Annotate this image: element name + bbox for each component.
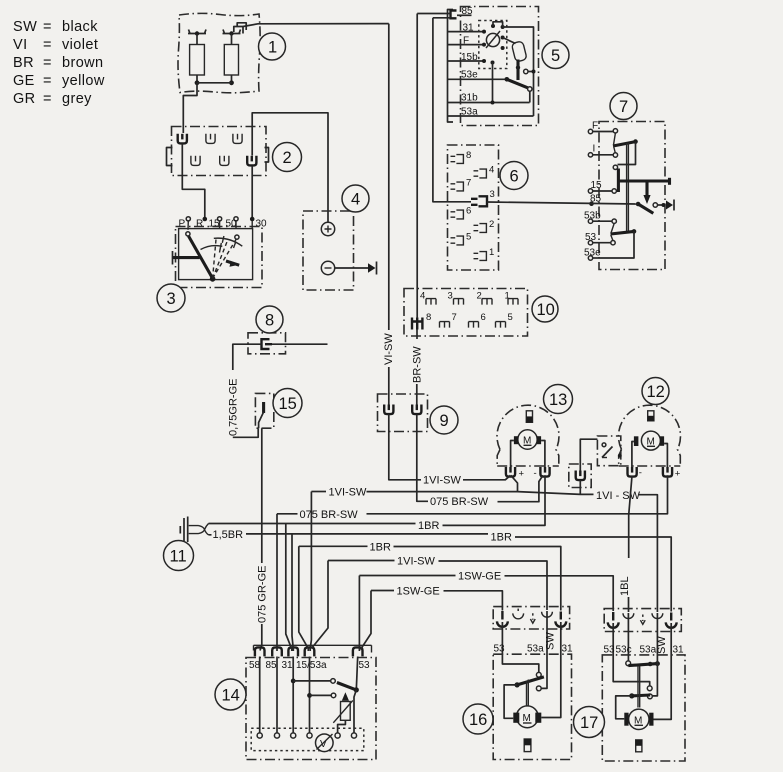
switch 3 inner frame	[179, 229, 253, 280]
svg-text:3: 3	[167, 290, 176, 308]
wire 1BR ground to pump13 minus	[209, 475, 546, 532]
connector 6 pin 6	[451, 206, 472, 219]
pump 13 motor leads	[511, 441, 545, 468]
relay 14 lead 58	[259, 657, 261, 734]
svg-text:=: =	[43, 73, 52, 89]
wire 1BR relay 53a to motor 16 strip	[299, 541, 561, 610]
wire drop 1SW-GE slant into relay 53	[361, 591, 372, 650]
circle 17	[574, 707, 605, 738]
circle 3	[157, 284, 185, 312]
relay 5 pin to 31b junction	[492, 63, 494, 103]
wire block2 to battery plus and terminal 30	[252, 113, 328, 223]
switch 3 steering-lock bar	[173, 256, 200, 259]
switch 7 top blade	[613, 133, 638, 170]
pump 12 minus connector	[628, 467, 642, 479]
motor 17 terminal labels	[604, 645, 685, 656]
wire 1BL pump12 minus to motor 17 strip	[619, 476, 632, 612]
svg-text:grey: grey	[62, 91, 92, 107]
motor 17 wire 53a through blade to contact	[648, 658, 658, 699]
svg-text:17: 17	[580, 714, 598, 732]
wiper switch 7 outline	[599, 122, 665, 270]
svg-text:8: 8	[265, 312, 274, 330]
svg-text:2: 2	[489, 219, 494, 230]
svg-text:1VI-SW: 1VI-SW	[423, 475, 462, 487]
terminal 30	[250, 217, 255, 222]
connector 6 pin 8	[451, 150, 472, 163]
relay 5 coil box	[479, 21, 507, 69]
connector 10 pin 4	[420, 291, 436, 305]
wire block2 to ignition R	[182, 144, 205, 220]
svg-text:31: 31	[673, 645, 685, 656]
svg-text:1VI-SW: 1VI-SW	[329, 486, 368, 498]
wire drop 1,5BR into relay 31	[292, 534, 293, 651]
svg-text:VI-SW: VI-SW	[383, 333, 395, 365]
motor 17 wire 53 to contact	[613, 658, 652, 691]
relay 14 terminal labels	[249, 660, 370, 671]
motor 16 terminal labels	[494, 644, 574, 655]
relay 14 lead 85	[276, 657, 278, 734]
svg-text:5: 5	[508, 312, 513, 323]
relay 5 contact to rail	[524, 69, 536, 73]
switch 3 housing	[176, 227, 263, 288]
wire 075BR-SW relay 85 to pump12 plus	[277, 475, 668, 521]
legend colour code	[13, 19, 105, 107]
svg-text:075 BR-SW: 075 BR-SW	[300, 509, 359, 521]
relay 14 blade	[337, 683, 359, 734]
svg-text:1: 1	[268, 39, 277, 57]
switch 7 slider rail	[627, 143, 629, 233]
wire 85 to BR-SW drop	[417, 13, 450, 15]
switch 7 terminal 85	[589, 194, 601, 207]
pump 13 brush icon	[526, 411, 532, 423]
svg-text:SW: SW	[13, 19, 37, 35]
connector 6 pin 3 bold	[471, 189, 495, 206]
ignition switch 3	[179, 217, 268, 230]
relay 5 switch blade	[505, 77, 533, 103]
connector 10 pin 6	[469, 312, 486, 328]
svg-text:53c: 53c	[616, 645, 632, 656]
svg-text:15/53a: 15/53a	[296, 660, 327, 671]
wire 1,5BR ground to motor 17 strip	[209, 529, 672, 612]
relay 5 terminal 53e	[448, 70, 507, 81]
svg-text:9: 9	[440, 412, 449, 430]
circle 5	[542, 42, 569, 69]
relay 14 resistor arrow	[342, 692, 349, 701]
block 2 right bracket	[265, 148, 269, 163]
motor 17 thermal icon	[636, 740, 642, 752]
junction pump13 plus to 1VI-SW run	[511, 475, 518, 491]
svg-text:1VI-SW: 1VI-SW	[397, 555, 436, 567]
intermittent relay 14 outline	[246, 658, 376, 760]
svg-text:I: I	[593, 144, 596, 155]
relay 14 contact 53a	[307, 693, 336, 698]
relay 5 terminal F	[448, 36, 484, 47]
connector block 2 outline	[172, 127, 267, 176]
connector 6 pin 4	[474, 165, 495, 178]
svg-text:8: 8	[466, 150, 471, 161]
wire 075GR-GE switch 15 to relay 58	[256, 428, 268, 650]
svg-text:2: 2	[477, 291, 482, 302]
switch 15 contact and blade	[259, 402, 264, 428]
svg-text:4: 4	[420, 291, 425, 302]
relay 5 top pin link	[493, 22, 503, 27]
svg-text:53: 53	[604, 645, 616, 656]
relay 14 resistor	[333, 701, 353, 734]
motor 16 wire 31	[541, 658, 561, 718]
svg-text:1,5BR: 1,5BR	[213, 529, 244, 541]
wire 075BR-SW connector9 to pump13 minus	[417, 415, 543, 509]
wire drop 1BR into relay 53a	[299, 546, 309, 651]
terminal 30 hook symbol	[234, 23, 246, 34]
svg-text:53: 53	[494, 644, 506, 655]
svg-text:-: -	[534, 468, 537, 479]
motor 16 plug strip	[493, 607, 569, 629]
wire 85 feed to pin 3	[433, 18, 471, 202]
switch 7 terminal F	[588, 121, 617, 134]
connector 8 outline	[248, 333, 286, 354]
svg-text:GR: GR	[13, 91, 36, 107]
motor 17 bottom blade	[616, 693, 651, 718]
block 2 left bracket	[167, 148, 173, 166]
svg-text:075 BR-SW: 075 BR-SW	[430, 496, 489, 508]
relay 5 terminal 15b	[448, 52, 484, 63]
svg-text:16: 16	[469, 711, 487, 729]
svg-text:15: 15	[279, 395, 297, 413]
motor 16 strip leads	[502, 611, 560, 658]
motor 17 actuator link	[638, 666, 640, 708]
circle 6	[500, 162, 528, 190]
relay 5 coil	[486, 31, 500, 48]
svg-text:3: 3	[490, 189, 495, 200]
wire 85 to pin3 drop	[433, 17, 451, 19]
svg-text:31: 31	[562, 644, 574, 655]
relay 5 left bracket	[448, 10, 454, 123]
pump 12 motor	[634, 431, 664, 450]
svg-text:10: 10	[537, 301, 555, 319]
svg-text:+: +	[675, 469, 681, 480]
circle 11	[164, 541, 194, 571]
svg-text:=: =	[43, 91, 52, 107]
connector 6 pin 5	[451, 232, 472, 245]
wiper motor 16 outline	[493, 654, 571, 759]
relay 14 contact 31	[291, 679, 336, 684]
svg-text:yellow: yellow	[62, 73, 105, 89]
svg-text:1BR: 1BR	[418, 520, 439, 532]
wire drop 1SW-GE into relay 53	[358, 576, 360, 652]
wire drop 1VI-SW slant into relay 53a	[312, 561, 328, 649]
wire 0,75GR-GE connector 8 to switch 15	[227, 344, 261, 437]
relay 14 wiper symbol	[316, 734, 334, 752]
wire fuse F1 to connector block 2	[183, 83, 197, 133]
switch 7 bottom blade	[599, 223, 637, 258]
svg-text:R: R	[196, 219, 203, 230]
wire connector 8 stub right	[272, 343, 328, 345]
svg-text:31: 31	[282, 660, 294, 671]
svg-text:8: 8	[426, 312, 431, 323]
svg-text:brown: brown	[62, 55, 104, 71]
circle 10	[532, 296, 558, 322]
svg-text:SW: SW	[545, 632, 557, 650]
svg-text:4: 4	[489, 165, 494, 176]
circle 8	[256, 306, 283, 333]
wire VI-SW vertical	[383, 24, 395, 405]
motor 17 top blade	[628, 661, 660, 666]
svg-text:15: 15	[209, 219, 221, 230]
motor 17 wire 53c to contact	[626, 658, 631, 666]
switch 7 terminal 53	[585, 232, 615, 245]
relay 5 terminal 31	[448, 23, 484, 34]
svg-text:-: -	[639, 468, 642, 479]
motor 17 wire 31	[654, 658, 672, 719]
motor 16 blade	[504, 677, 544, 718]
svg-text:7: 7	[452, 312, 457, 323]
svg-text:1VI - SW: 1VI - SW	[596, 490, 641, 502]
svg-text:1SW-GE: 1SW-GE	[458, 570, 501, 582]
svg-text:6: 6	[481, 312, 486, 323]
motor 17 plug strip	[604, 609, 681, 632]
circle 15	[273, 389, 302, 418]
svg-text:53a: 53a	[527, 644, 544, 655]
ground symbol at battery	[368, 262, 377, 275]
terminal P	[186, 217, 190, 221]
wiper relay 5 outline	[461, 7, 539, 126]
svg-text:85: 85	[266, 660, 278, 671]
svg-text:075 GR-GE: 075 GR-GE	[256, 566, 268, 623]
relay 5 connector at 85	[451, 11, 457, 19]
switch 7 terminal 53b	[584, 211, 616, 224]
relay 14 plug strip	[254, 645, 372, 656]
circle 4	[342, 185, 369, 212]
svg-text:53a: 53a	[640, 645, 657, 656]
switch 3 rotor	[186, 232, 243, 282]
svg-text:=: =	[43, 19, 52, 35]
pump 12 plus connector	[663, 467, 681, 480]
relay 5 armature	[503, 38, 528, 81]
svg-text:1BL: 1BL	[619, 576, 631, 596]
battery minus wire to ground	[335, 267, 368, 269]
switch 7 actuator arrow	[643, 181, 650, 204]
wire drop 1BR into relay 31	[286, 524, 292, 652]
relay 14 lead 53	[356, 657, 357, 690]
battery plus terminal	[321, 222, 334, 235]
relay 5 pins	[482, 30, 486, 34]
svg-text:P: P	[179, 219, 186, 230]
connector 10 pin 2	[477, 291, 493, 305]
svg-text:black: black	[62, 19, 98, 35]
circle 16	[463, 704, 493, 734]
connector 10 pin 5	[496, 312, 513, 328]
connector 10 pin 3	[448, 291, 464, 305]
connector 8 pin	[262, 339, 273, 349]
pump 12 motor leads	[632, 442, 668, 468]
motor 16 wire 53a to contact	[536, 658, 547, 691]
circle 9	[430, 406, 458, 434]
wire BR-SW vertical	[412, 14, 424, 405]
connector 9 outline	[378, 394, 428, 432]
relay 14 lead 53a	[309, 657, 311, 734]
pump 12 brush icon	[648, 411, 654, 421]
switch 7 wire 85 blade	[636, 202, 666, 214]
svg-text:BR-SW: BR-SW	[412, 346, 424, 383]
relay 14 lead 31	[292, 657, 294, 734]
circle 7	[610, 93, 637, 120]
wire drop 075BR-SW into relay 85	[276, 514, 278, 651]
wiper motor 17 outline	[602, 655, 685, 761]
connector 9 pin VI	[384, 405, 393, 415]
svg-text:+: +	[519, 469, 525, 480]
svg-text:58: 58	[249, 660, 261, 671]
relay 5 wire pin to right rail	[503, 27, 534, 116]
svg-text:13: 13	[549, 391, 567, 409]
washer pump 12 dome	[619, 405, 681, 466]
connector 10 outline	[404, 289, 528, 337]
svg-text:14: 14	[222, 687, 240, 705]
fuse F1	[188, 30, 206, 83]
washer pump 13 dome	[497, 405, 559, 466]
fuse box 1 outline	[178, 13, 260, 92]
circle 2	[273, 143, 302, 172]
motor 16 motor	[513, 706, 541, 728]
svg-text:BR: BR	[13, 55, 34, 71]
svg-text:1BR: 1BR	[370, 541, 391, 553]
fuse bottom bus wire	[195, 80, 234, 85]
svg-text:VI: VI	[13, 37, 28, 53]
wire 1SW-GE relay 53 to motor 17 strip	[359, 570, 613, 611]
fuse F2	[223, 30, 241, 83]
relay 14 socket pins	[257, 733, 357, 738]
svg-text:5: 5	[466, 232, 471, 243]
svg-text:violet: violet	[62, 37, 98, 53]
svg-text:GE: GE	[13, 73, 35, 89]
circle 14	[215, 679, 246, 710]
terminal R	[203, 217, 208, 222]
relay 5 terminal 85	[457, 6, 473, 17]
wire 1VI-SW relay 53a to motor 16 strip	[328, 555, 547, 610]
wire fuse F2 to VI-SW feed	[243, 24, 389, 27]
wire 1SW-GE relay 53 to motor 16 strip	[371, 585, 502, 610]
pump 13 plus connector	[506, 467, 525, 480]
pump 13 minus connector	[534, 467, 550, 479]
terminal 15	[218, 217, 222, 221]
svg-text:SW: SW	[656, 636, 668, 654]
switch 7 terminal 53e	[584, 248, 601, 261]
motor 16 wire 53 to contact	[502, 658, 541, 677]
pump 13 motor	[514, 430, 541, 449]
svg-text:3: 3	[448, 291, 453, 302]
terminal 50	[234, 217, 238, 221]
circle 1	[259, 33, 286, 60]
motor 17 motor	[624, 709, 653, 729]
connector 10 pin 8 bold	[412, 312, 431, 330]
svg-text:6: 6	[510, 168, 519, 186]
svg-text:1: 1	[489, 247, 494, 258]
connector 10 pin 7	[440, 312, 457, 328]
switch 3 terminal stubs	[188, 221, 252, 230]
ground terminal 11	[180, 517, 208, 543]
svg-text:0,75GR-GE: 0,75GR-GE	[227, 379, 239, 436]
motor 17 strip leads	[613, 613, 671, 658]
wire pin 3 to switch 7 terminal 85	[487, 202, 638, 204]
relay 5 terminal 31b	[448, 93, 530, 104]
battery 4 outline	[303, 211, 354, 290]
svg-text:11: 11	[170, 548, 187, 566]
battery minus terminal	[321, 261, 334, 274]
wire 1VI-SW relay 53a to motor 17 strip	[311, 486, 657, 612]
relay 5 terminal 53a	[448, 107, 534, 118]
circle 12	[642, 378, 669, 405]
connector 6 pin 1	[474, 247, 495, 260]
motor 16 thermal icon	[524, 739, 531, 752]
circle 13	[544, 385, 573, 414]
svg-text:2: 2	[283, 149, 292, 167]
connector 6 pin 2	[474, 219, 495, 232]
switch 7 terminal 15	[588, 180, 616, 193]
svg-text:6: 6	[466, 206, 471, 217]
svg-text:12: 12	[647, 383, 665, 401]
svg-text:4: 4	[351, 191, 360, 209]
inline connector between pumps	[569, 439, 598, 494]
svg-text:7: 7	[466, 178, 471, 189]
svg-text:1SW-GE: 1SW-GE	[397, 585, 440, 597]
park switch box at pump 12	[597, 436, 621, 466]
switch 7 ground symbol	[666, 200, 674, 211]
switch 7 terminal I	[588, 144, 617, 158]
svg-text:53: 53	[359, 660, 371, 671]
wire drop 1VI-SW into relay 53a	[310, 492, 311, 652]
wire 1VI-SW connector9 to pump13 plus	[389, 415, 511, 487]
block 2 pins	[178, 134, 187, 144]
relay 14 inner socket box	[251, 728, 364, 750]
switch 7 cross bar	[618, 169, 669, 193]
svg-text:7: 7	[619, 98, 628, 116]
svg-text:1: 1	[505, 291, 510, 302]
svg-text:=: =	[43, 55, 52, 71]
connector 6 pin 7	[451, 178, 472, 191]
connector 6 outline	[448, 145, 499, 270]
svg-text:1BR: 1BR	[491, 532, 512, 544]
svg-text:=: =	[43, 37, 52, 53]
switch 15 outline	[255, 393, 273, 428]
svg-text:5: 5	[551, 47, 560, 65]
connector 9 pin BR	[412, 405, 421, 415]
connector 10 pin 1	[505, 291, 519, 305]
motor 16 actuator link	[527, 680, 529, 707]
